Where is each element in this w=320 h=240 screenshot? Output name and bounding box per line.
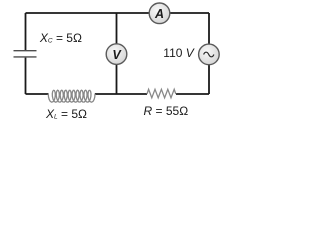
svg-text:XL = 5Ω: XL = 5Ω <box>45 107 87 121</box>
svg-text:XC = 5Ω: XC = 5Ω <box>39 31 82 45</box>
svg-text:R = 55Ω: R = 55Ω <box>144 104 189 118</box>
svg-text:A: A <box>154 7 164 21</box>
svg-text:110 V: 110 V <box>163 46 194 60</box>
